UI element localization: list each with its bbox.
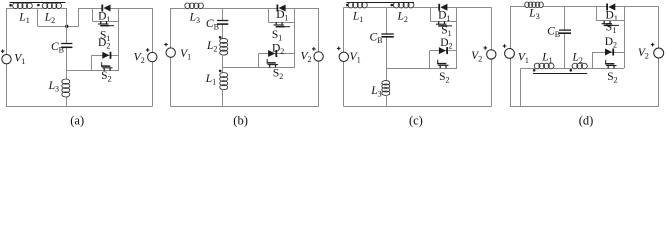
svg-text:(c): (c) xyxy=(409,114,423,128)
wire CB column (a) xyxy=(66,8,68,43)
switch S2 MOSFET (c) xyxy=(387,68,457,70)
capacitor CB (d) xyxy=(559,30,571,33)
polarity dot L2 (a) xyxy=(37,4,40,7)
voltage source V2 (b) xyxy=(312,47,323,61)
diode D2 (d) xyxy=(593,52,624,54)
wire cell right rail (d) xyxy=(624,7,626,68)
wire cell right rail (c) xyxy=(456,7,458,68)
wire right rail (b) xyxy=(318,8,320,107)
switch S1 MOSFET (c) xyxy=(430,7,432,21)
diode D1 (d) xyxy=(607,4,615,11)
wire right rail (c) xyxy=(491,7,493,106)
wire under L2 (a) xyxy=(38,26,79,28)
wire left rail (d) xyxy=(510,7,512,107)
inductor L1 (d) xyxy=(534,63,554,69)
diode D2 (c) xyxy=(430,50,457,52)
wire right rail (d) xyxy=(658,7,660,107)
wire node N1 drop (a) xyxy=(37,8,39,26)
polarity dot L1 (b) xyxy=(219,70,222,73)
diode D1 (b) xyxy=(277,5,285,12)
switch S1 MOSFET (d) xyxy=(596,7,598,21)
svg-text:(a): (a) xyxy=(70,114,84,128)
wire bottom (b) xyxy=(171,106,319,108)
wire cell2 left rail (a) xyxy=(91,55,93,70)
capacitor CB (a) xyxy=(61,44,72,48)
diode D2 (b) xyxy=(259,53,295,55)
coupling core line L1-L2 (d) xyxy=(533,73,587,75)
inductor L1 (a) xyxy=(13,3,33,9)
svg-text:(b): (b) xyxy=(233,114,248,128)
wire riser to top (a) xyxy=(78,8,80,26)
diode D2 (a) xyxy=(92,55,120,57)
wire bottom (c) xyxy=(344,106,492,108)
polarity dot L1 (d) xyxy=(533,69,536,72)
wire bottom (d) xyxy=(510,106,659,108)
wire midpoint to cell (b) xyxy=(223,67,259,69)
wire top (a) xyxy=(6,8,13,10)
wire column mid (b) xyxy=(222,55,224,73)
capacitor CB (c) xyxy=(381,34,393,37)
polarity dot L2 (d) xyxy=(570,69,573,72)
inductor L3 (c) xyxy=(386,68,388,81)
voltage source V2 (c) xyxy=(484,46,496,59)
inductor L1 (b) xyxy=(220,73,228,90)
voltage source V2 (d) xyxy=(651,43,664,58)
switch S2 MOSFET (b) xyxy=(259,67,295,69)
polarity dot L1 (c) xyxy=(346,4,349,7)
inductor L3 (a) xyxy=(66,71,68,80)
switch S2 MOSFET (a) xyxy=(67,70,119,72)
wire top (b) xyxy=(171,8,186,10)
wire CB column (d) xyxy=(564,7,566,30)
wire bottom (a) xyxy=(6,106,152,108)
polarity dot L2 (c) xyxy=(391,4,394,7)
wire mid to cell (d) xyxy=(587,68,624,70)
wire left rail (c) xyxy=(343,7,345,106)
inductor L2 (a) xyxy=(42,3,61,9)
wire top (d) xyxy=(510,6,525,8)
capacitor CB (b) xyxy=(217,21,228,25)
junction dot (a) xyxy=(65,25,68,28)
wire mid branch left drop (d) xyxy=(520,68,522,107)
switch S1 MOSFET (a) xyxy=(92,8,94,21)
wire top (c) xyxy=(344,7,349,9)
voltage source V1 (d) xyxy=(503,44,515,58)
wire left rail (b) xyxy=(170,8,172,107)
wire cell right rail (b) xyxy=(294,8,296,67)
diode D1 (a) xyxy=(102,5,110,12)
inductor L2 (b) xyxy=(220,38,228,55)
voltage source V1 (b) xyxy=(164,43,175,58)
wire mid between coils (d) xyxy=(553,68,572,70)
wire cell right rail (a) xyxy=(118,8,120,71)
wire cell2 left rail (c) xyxy=(429,51,431,68)
polarity dot L2 (b) xyxy=(219,36,222,39)
voltage source V1 (c) xyxy=(337,47,349,62)
wire CB column (c) xyxy=(386,7,388,33)
wire cell2 left rail (b) xyxy=(258,54,260,68)
wire CB column (b) xyxy=(222,8,224,20)
wire cell2 left rail (d) xyxy=(592,52,594,68)
inductor L2 (c) xyxy=(393,2,414,8)
switch S1 MOSFET (b) xyxy=(268,8,270,22)
wire column bottom (b) xyxy=(222,89,224,106)
voltage source V1 (a) xyxy=(1,49,11,64)
wire right rail (a) xyxy=(152,8,154,107)
polarity dot L1 (a) xyxy=(9,4,12,7)
switch S2 MOSFET (d) xyxy=(605,60,616,69)
inductor L3 (d) xyxy=(525,2,544,8)
inductor L2 (d) xyxy=(572,63,587,69)
inductor L3 (b) xyxy=(185,3,204,9)
wire left rail (a) xyxy=(6,8,8,107)
inductor L1 (c) xyxy=(348,2,367,8)
coupling core line L1-L2 (c) xyxy=(347,2,415,4)
svg-text:(d): (d) xyxy=(579,113,594,127)
voltage source V2 (a) xyxy=(146,48,157,62)
coupling core line L1-L2 (a) xyxy=(9,2,65,4)
diode D1 (c) xyxy=(439,4,447,11)
